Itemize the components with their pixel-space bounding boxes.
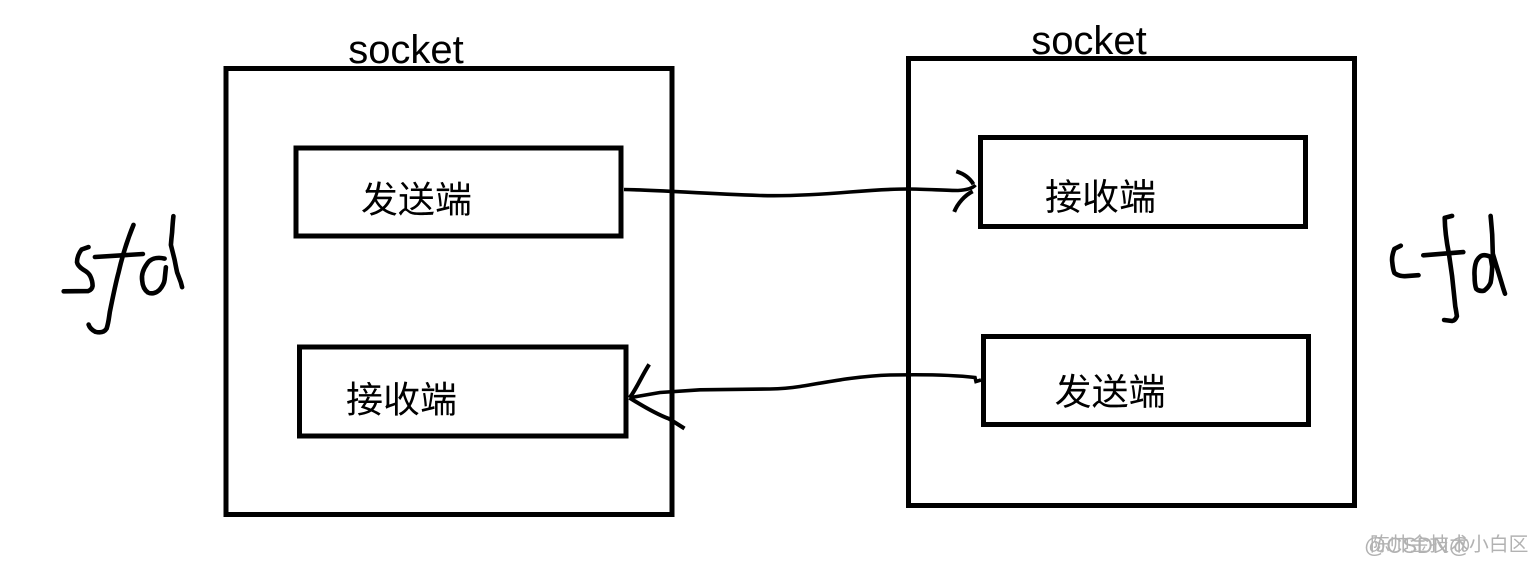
label: 发送端 (right) — [1056, 374, 1164, 408]
watermark: CSDN @ handle (bottom right) — [1364, 533, 1527, 558]
label: 接收端 (right) — [1046, 179, 1154, 213]
box: left sender 发送端 — [296, 148, 621, 236]
wire: top, left sender to right receiver — [624, 185, 976, 196]
box: right sender 发送端 — [984, 337, 1309, 425]
wire: bottom, right sender to left receiver — [630, 375, 982, 398]
label: 接收端 (left) — [347, 382, 455, 416]
box: left receiver 接收端 — [300, 347, 627, 436]
svg-text:socket: socket — [348, 28, 464, 72]
box: right receiver 接收端 — [981, 138, 1306, 227]
box: right socket (client) — [909, 59, 1355, 506]
handwriting: sfd (left margin) — [64, 216, 182, 332]
label: 发送端 (left) — [362, 181, 470, 215]
arrowhead: top wire at right receiver — [954, 171, 973, 212]
svg-text:socket: socket — [1031, 19, 1147, 63]
box: left socket (server) — [226, 69, 672, 515]
arrowhead: bottom wire at left receiver — [630, 364, 685, 428]
handwriting: cfd (right margin) — [1392, 216, 1505, 321]
